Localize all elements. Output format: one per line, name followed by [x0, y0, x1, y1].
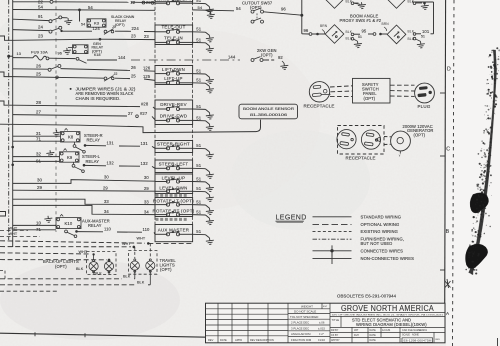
svg-text:30: 30 [104, 175, 109, 180]
switch box STEER-RIGHT [155, 141, 193, 153]
wire 51 (TELE-IN) [193, 41, 206, 43]
svg-text:v: v [399, 154, 401, 158]
svg-text:APP BY: APP BY [331, 339, 340, 342]
revision table [206, 308, 289, 310]
bottom border tick [34, 332, 36, 336]
svg-text:132: 132 [107, 161, 115, 166]
plug [415, 83, 435, 103]
ground (row 54) [206, 10, 211, 12]
svg-text:(OPT): (OPT) [55, 264, 67, 269]
svg-text:RELAY: RELAY [88, 223, 102, 228]
svg-text:32: 32 [36, 152, 42, 157]
ground (ROTATE-LT (OPT)) [206, 205, 210, 208]
svg-text:WEIGHT: WEIGHT [301, 304, 313, 308]
furnished-wiring hatch bar [156, 194, 188, 197]
svg-text:29: 29 [37, 185, 43, 190]
svg-text:STANDARD WIRING: STANDARD WIRING [361, 214, 402, 219]
svg-text:RELAY: RELAY [86, 159, 100, 164]
svg-text:51: 51 [196, 210, 202, 215]
relay K8 STEER-R [53, 129, 62, 136]
switch box STEER-LEFT [155, 160, 193, 173]
svg-text:132: 132 [141, 161, 149, 166]
svg-text:REV DESCRIPTION: REV DESCRIPTION [250, 338, 274, 342]
boom angle sensor wire [0, 120, 261, 133]
svg-text:WHT: WHT [9, 226, 18, 230]
relay K9 STEER-L [46, 150, 55, 157]
svg-text:29: 29 [103, 185, 108, 190]
title block outline [206, 303, 446, 343]
wire 28 [0, 101, 140, 107]
panel dashed wires left [330, 86, 353, 87]
wire 51 (ROTATE-LT (OPT)) [193, 204, 206, 206]
svg-text:DATE: DATE [220, 338, 227, 342]
svg-text:BRN: BRN [382, 22, 390, 26]
wire 144 [87, 59, 117, 61]
svg-text:BLK: BLK [123, 275, 131, 279]
svg-text:51: 51 [196, 143, 202, 148]
svg-text:224: 224 [132, 26, 140, 31]
wire 51 (TELE-OUT) [193, 31, 206, 33]
svg-text:DATE: DATE [370, 334, 377, 337]
svg-text:±.06: ±.06 [319, 321, 325, 325]
svg-text:DATE: DATE [370, 329, 377, 332]
svg-text:±.015: ±.015 [318, 326, 325, 330]
contact K18 [76, 57, 79, 60]
legend existing wiring [313, 231, 352, 233]
wire 96 top left [12, 9, 14, 11]
svg-text:110: 110 [104, 227, 112, 232]
stain blob 1 [470, 193, 488, 213]
svg-text:DR BY: DR BY [331, 329, 339, 332]
wire 26 / 126 [13, 68, 48, 70]
svg-text:DATE: DATE [370, 339, 377, 342]
corner trim mark [497, 338, 499, 346]
svg-text:WHT: WHT [122, 242, 131, 246]
back-up lamp 1 [93, 254, 95, 259]
boom angle sensor box [239, 104, 298, 119]
svg-text:(OPT): (OPT) [115, 23, 125, 27]
svg-text:30: 30 [144, 175, 149, 180]
svg-text:51: 51 [196, 104, 202, 109]
svg-text:RELAY: RELAY [87, 138, 101, 143]
svg-text:(OPT): (OPT) [261, 52, 273, 57]
safety switch panel box [353, 78, 391, 103]
right sheet border [445, 0, 446, 341]
svg-text:RECEPTACLE: RECEPTACLE [346, 156, 376, 161]
svg-text:96: 96 [304, 28, 309, 33]
svg-text:E6291: E6291 [420, 329, 428, 332]
ground (LIFT-DWN) [206, 74, 210, 77]
ground (TELE-IN) [206, 43, 210, 46]
svg-text:CONNECTED WIRES: CONNECTED WIRES [361, 248, 404, 253]
svg-text:96: 96 [281, 6, 286, 11]
wire 51 (ROTATE-RT (OPT)) [193, 214, 206, 216]
main vertical bus [12, 0, 14, 247]
svg-text:TOL NOT SPECIFIED: TOL NOT SPECIFIED [290, 315, 318, 319]
ground (AUX MASTER) [206, 235, 210, 238]
svg-text:26: 26 [131, 65, 136, 70]
svg-text:125: 125 [143, 74, 151, 79]
svg-text:27: 27 [36, 109, 42, 114]
switch box AUX MASTER [155, 225, 193, 242]
wire 91 with switch to ground [13, 19, 49, 20]
svg-text:CHAIN IS REQUIRED.: CHAIN IS REQUIRED. [76, 96, 121, 101]
junction node [11, 164, 14, 167]
svg-text:51: 51 [196, 200, 202, 205]
svg-text:33: 33 [104, 199, 109, 204]
wire 34 [13, 205, 155, 214]
legend non-connected wires [313, 257, 352, 259]
svg-text:51: 51 [196, 229, 202, 234]
svg-text:51: 51 [196, 176, 202, 181]
generator dashes [384, 136, 391, 138]
svg-text:BUT NOT USED: BUT NOT USED [361, 241, 393, 246]
svg-text:34: 34 [104, 209, 109, 214]
svg-text:51: 51 [358, 35, 362, 39]
wht bus 4 [0, 259, 107, 261]
switch box DRIVE [155, 100, 193, 125]
ground (K18) [68, 47, 73, 49]
svg-text:±1/16: ±1/16 [318, 338, 325, 342]
contact J1 [104, 30, 107, 33]
svg-text:51: 51 [196, 0, 202, 3]
svg-text:81-356-000106: 81-356-000106 [250, 113, 287, 117]
svg-text:33: 33 [144, 200, 149, 205]
wht bus 1 [0, 241, 145, 243]
svg-text:CK BY: CK BY [331, 334, 339, 337]
svg-text:51: 51 [196, 115, 202, 120]
svg-text:22: 22 [146, 0, 151, 5]
wht bus 2 [0, 246, 131, 248]
ground (proxy 4) [421, 3, 430, 10]
svg-text:3 PLACE DEC: 3 PLACE DEC [291, 326, 309, 330]
svg-text:EXISTING WIRING: EXISTING WIRING [361, 229, 398, 234]
ground (proxy 3) [358, 2, 367, 9]
drawing number cell [402, 338, 433, 343]
svg-text:131: 131 [141, 141, 149, 146]
svg-text:29: 29 [144, 186, 149, 191]
ground (LIFT-UP) [206, 83, 210, 86]
travel lamp 1 [134, 247, 136, 258]
switch box LEVEL [155, 174, 193, 194]
svg-text:PROXY SWS #1 & #2: PROXY SWS #1 & #2 [340, 18, 382, 23]
existing-wiring bus (dash-dot) [8, 0, 10, 240]
svg-text:C: C [446, 147, 450, 153]
svg-text:51: 51 [196, 37, 202, 42]
svg-text:FRACTION DIM: FRACTION DIM [291, 338, 312, 342]
legend furnished wiring [313, 238, 352, 240]
wire 51 (DRIVE-REV) [193, 108, 206, 110]
blk bus 1 [0, 278, 122, 280]
svg-text:JRT: JRT [354, 329, 359, 332]
wht bus 3 [0, 253, 91, 254]
svg-text:51: 51 [196, 78, 202, 83]
scan stain streak [469, 50, 497, 274]
wire 51 (SWING-DR (OPT)) [193, 2, 206, 4]
left edge steps [0, 271, 5, 279]
approval rows [330, 331, 445, 333]
svg-text:TITLE: TITLE [332, 318, 340, 322]
svg-text:71: 71 [36, 137, 42, 142]
svg-text:DLH: DLH [354, 334, 359, 337]
wire 51 (AUX MASTER) [193, 233, 206, 235]
switch box SWING (top, cut off) [155, 0, 193, 2]
svg-text:WIRING DIAGRAM (DIESEL)(10KW): WIRING DIAGRAM (DIESEL)(10KW) [356, 322, 427, 327]
ground (SWING-DR (OPT)) [206, 4, 210, 7]
wire 71b [13, 229, 56, 231]
svg-text:124: 124 [93, 26, 101, 31]
contact K9 / wire 132 [73, 162, 75, 164]
svg-text:25: 25 [36, 71, 42, 76]
panel dashed wires right [390, 84, 415, 86]
ground (proxy 1) [354, 41, 363, 48]
stray X mark [445, 279, 451, 288]
svg-text:54: 54 [236, 6, 241, 11]
svg-text:96: 96 [58, 52, 62, 56]
left edge step (aux feed) [0, 212, 6, 217]
wire 25 / 125 / jumper J2 [0, 72, 104, 78]
wire 101 riser [431, 33, 434, 35]
svg-text:126: 126 [143, 66, 151, 71]
svg-text:BLK: BLK [76, 267, 84, 271]
svg-text:144: 144 [228, 55, 236, 60]
svg-text:30: 30 [37, 178, 43, 183]
blk bus 2 [0, 284, 136, 286]
svg-text:51: 51 [196, 186, 202, 191]
svg-text:10: 10 [36, 220, 42, 225]
furnished-wiring hatch bar [156, 218, 188, 221]
svg-text:J2: J2 [114, 72, 118, 76]
note jumper wires [70, 88, 72, 90]
svg-text:EST: EST [323, 306, 328, 308]
wire 31 [13, 135, 61, 137]
svg-text:WHT: WHT [9, 232, 18, 236]
svg-text:(OPT): (OPT) [364, 96, 376, 101]
svg-text:12-6-84: 12-6-84 [382, 329, 391, 332]
junction node 13 [7, 55, 10, 58]
svg-text:± 2°: ± 2° [319, 332, 324, 336]
svg-text:27: 27 [128, 111, 133, 116]
svg-text:51: 51 [196, 27, 202, 32]
svg-text:ANGULAR DIM: ANGULAR DIM [291, 332, 311, 336]
svg-text:51: 51 [196, 163, 202, 168]
ground (STEER-LEFT) [206, 169, 210, 172]
ground (ROTATE-RT (OPT)) [206, 215, 210, 218]
generator receptacle box [338, 126, 385, 155]
stain speckles [465, 47, 500, 275]
svg-text:SCALE: SCALE [402, 333, 410, 336]
wire 51 (LIFT-DWN) [193, 73, 206, 75]
left edge dashes [0, 229, 28, 231]
ground (LEVEL-DWN) [206, 192, 210, 195]
svg-text:22: 22 [131, 0, 136, 5]
switch box LIFT [155, 66, 193, 85]
svg-text:91: 91 [36, 158, 42, 163]
svg-text:E6-1298-000475M: E6-1298-000475M [404, 338, 433, 342]
svg-text:DO NOT SCALE: DO NOT SCALE [294, 309, 316, 313]
svg-text:71: 71 [36, 227, 42, 232]
svg-text:51: 51 [196, 69, 202, 74]
wire 91b [13, 160, 60, 162]
wire 10 [13, 224, 56, 226]
wire 29 [13, 190, 155, 191]
svg-text:54: 54 [88, 5, 93, 10]
generator circle [391, 131, 411, 151]
wire 22 [13, 1, 50, 3]
proxy switch 4 (cut off) [387, 0, 406, 8]
svg-text:RECEPTACLE: RECEPTACLE [304, 104, 335, 109]
svg-text:NONE: NONE [412, 333, 419, 336]
travel lights box [129, 251, 158, 275]
ground (STEER-RIGHT) [206, 149, 210, 152]
svg-text:23: 23 [38, 34, 44, 39]
svg-text:#27: #27 [140, 111, 148, 116]
svg-text:95: 95 [362, 29, 367, 34]
wire 51 (LIFT-UP) [193, 82, 206, 84]
svg-text:131: 131 [107, 140, 115, 145]
wire 54 right section [193, 9, 234, 12]
svg-text:K8: K8 [68, 135, 74, 140]
svg-text:91: 91 [38, 14, 44, 19]
svg-text:LEGEND: LEGEND [276, 215, 307, 222]
svg-text:OBSOLETES E6-291-007944: OBSOLETES E6-291-007944 [337, 293, 397, 298]
svg-text:(OPT): (OPT) [414, 132, 426, 137]
svg-text:54: 54 [81, 23, 85, 27]
junction node [11, 146, 14, 149]
border zone tick [440, 92, 445, 94]
travel lamp 2 [149, 243, 151, 257]
console column dashed edges [154, 2, 156, 25]
svg-text:J1: J1 [112, 25, 116, 29]
legend optional wiring [313, 223, 352, 225]
svg-text:D: D [447, 67, 451, 73]
svg-text:BLK: BLK [95, 271, 103, 275]
svg-text:28: 28 [36, 100, 42, 105]
ground (91) [64, 18, 73, 25]
svg-text:92: 92 [278, 55, 283, 60]
tolerance column [288, 308, 330, 310]
svg-text:PLUG: PLUG [418, 104, 431, 109]
svg-text:K18: K18 [94, 53, 101, 57]
svg-text:GROVE NORTH AMERICA: GROVE NORTH AMERICA [341, 304, 434, 313]
ground (LEVEL-UP) [206, 182, 210, 185]
svg-text:OPTIONAL WIRING: OPTIONAL WIRING [361, 222, 400, 227]
svg-text:23: 23 [144, 34, 149, 39]
svg-text:DIV OF GROVE INDUSTRIES INC.: DIV OF GROVE INDUSTRIES INC. BOX 21. SHA… [332, 313, 444, 316]
svg-text:54: 54 [198, 5, 203, 10]
wire 96 riser/drop [300, 14, 303, 17]
proxy switch 2 [368, 33, 373, 35]
svg-text:24: 24 [38, 24, 44, 29]
wire 30 [13, 180, 155, 184]
svg-text:B: B [446, 229, 450, 235]
wire 51 (DRIVE-FWD) [193, 119, 206, 121]
ground (proxy 2) [417, 41, 426, 48]
svg-text:101: 101 [422, 29, 430, 34]
svg-text:NON-CONNECTED WIRES: NON-CONNECTED WIRES [361, 256, 415, 261]
ground (92) [280, 63, 289, 70]
svg-text:25: 25 [131, 74, 136, 79]
svg-text:BLK: BLK [137, 281, 145, 285]
wire 32 [13, 156, 60, 158]
junction node 54/K3 [78, 9, 81, 12]
svg-text:13: 13 [17, 52, 21, 56]
svg-text:144: 144 [118, 55, 126, 60]
outlet 1 [337, 130, 356, 149]
ground (DRIVE-REV) [206, 109, 210, 112]
svg-text:34: 34 [144, 210, 149, 215]
svg-text:BRN: BRN [320, 24, 328, 28]
legend connected wires [313, 250, 352, 252]
contact K10 / wire 110 [65, 230, 68, 233]
svg-text:K9: K9 [67, 155, 73, 160]
switch box ROTATE [155, 198, 193, 217]
svg-text:WHT: WHT [137, 237, 146, 241]
ground (TELE-OUT) [206, 32, 210, 35]
svg-text:#28: #28 [141, 101, 149, 106]
proxy switch 3 (cut off) [325, 0, 344, 8]
svg-text:2 PLACE DEC: 2 PLACE DEC [291, 321, 309, 325]
svg-text:26: 26 [36, 64, 42, 69]
wire 51 (LEVEL-DWN) [193, 190, 206, 192]
svg-text:23: 23 [131, 34, 136, 39]
wire 33 [13, 199, 155, 204]
backup lights box [87, 252, 117, 275]
wire 54 [13, 9, 150, 12]
contact K8 / wire 131 [74, 142, 76, 145]
svg-text:(OPT): (OPT) [160, 267, 172, 272]
outlet 2 [361, 130, 380, 149]
harness dashed vertical [55, 0, 57, 232]
stain blob 2 [465, 244, 487, 268]
wire 51 (LEVEL-UP) [193, 181, 206, 183]
bottom sheet border [0, 333, 207, 337]
svg-text:31: 31 [36, 131, 42, 136]
relay K3 SLACK CHAIN [79, 10, 81, 22]
legend standard wiring [313, 216, 352, 218]
svg-text:BOOM ANGLE SENSOR: BOOM ANGLE SENSOR [243, 106, 294, 111]
svg-text:APPD: APPD [235, 338, 242, 342]
svg-text:REV: REV [208, 338, 214, 342]
trim dashed line [453, 0, 455, 346]
switch box TELE [155, 25, 193, 45]
wire 27 [13, 115, 127, 116]
wire 24 / 124 / 224 [13, 30, 49, 31]
svg-text:54: 54 [38, 5, 44, 10]
relay K10 AUX-MASTER [44, 215, 53, 222]
wire 51 (STEER-RIGHT) [193, 147, 206, 149]
svg-text:FU9 10A: FU9 10A [31, 49, 48, 54]
wire 23 [0, 36, 155, 40]
ground (DRIVE-FWD) [206, 121, 210, 124]
svg-text:110: 110 [143, 227, 151, 232]
svg-text:(OPT): (OPT) [250, 5, 262, 10]
svg-text:51: 51 [421, 35, 425, 39]
receptacle (safety) [309, 82, 329, 102]
back-up lamp 2 [108, 259, 110, 261]
svg-text:K10: K10 [65, 221, 73, 226]
svg-text:REV: REV [436, 339, 441, 341]
svg-text:CAD FILE NAME: CAD FILE NAME [402, 329, 421, 332]
wire 71 [13, 140, 61, 142]
wire 51 (STEER-LEFT) [193, 167, 206, 169]
